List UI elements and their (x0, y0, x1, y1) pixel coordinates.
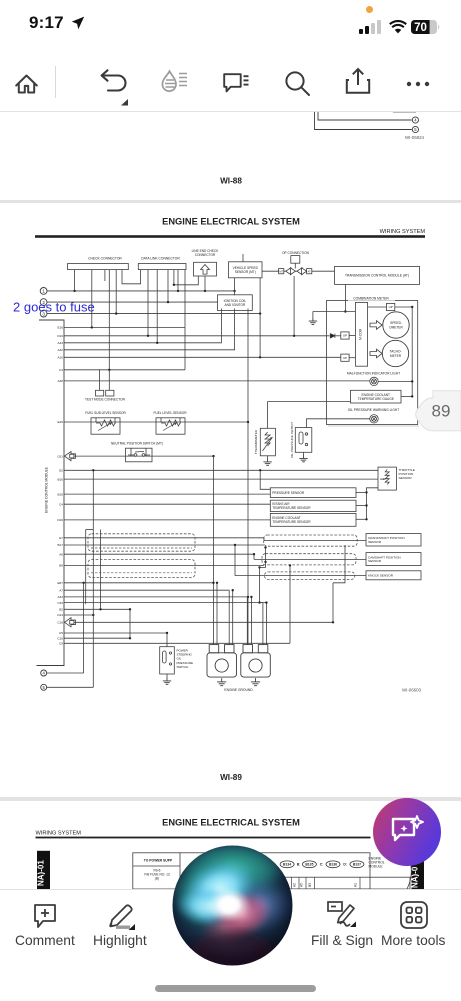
svg-text:NA)-0: NA)-0 (411, 866, 420, 888)
wire loop vert (85, 530, 87, 605)
svg-text:89: 89 (432, 402, 451, 421)
wire E87 row (64, 582, 214, 584)
svg-text:B3: B3 (308, 883, 312, 887)
svg-text:ENGINE COOLANTTEMPERATURE SENS: ENGINE COOLANTTEMPERATURE SENSOR (272, 516, 311, 524)
wire coolant right (356, 518, 367, 520)
orange dot (366, 6, 373, 13)
wire intake right (356, 505, 367, 507)
fuel sub level sensor (91, 418, 120, 434)
thermometer gnd stem (267, 456, 269, 459)
wire C61 row (74, 455, 213, 457)
svg-text:A7: A7 (59, 588, 63, 592)
op connection stub box (291, 256, 300, 264)
connector B137 (350, 861, 364, 868)
shield wire L1 dashed (91, 547, 192, 549)
wire E7 row (64, 537, 264, 539)
svg-text:UP: UP (343, 356, 347, 360)
svg-text:FUEL LEVEL SENSOR: FUEL LEVEL SENSOR (153, 411, 187, 415)
wire crank solid (264, 540, 366, 542)
node 3 (40, 310, 47, 317)
power steering oil pressure switch (160, 647, 175, 674)
svg-text:NA)-01: NA)-01 (37, 860, 46, 886)
junction row1 b (177, 290, 179, 292)
wire row 2 (47, 301, 217, 303)
junction shield a (264, 546, 266, 548)
svg-text:A28: A28 (57, 379, 63, 383)
svg-text:IGNITION COILAND IGNITOR: IGNITION COILAND IGNITOR (224, 299, 247, 307)
shield box L2 (88, 560, 195, 578)
svg-text:THROTTLEPOSITIONSENSOR: THROTTLEPOSITIONSENSOR (399, 468, 415, 480)
svg-text:B10: B10 (57, 492, 63, 496)
strip pin A2 (293, 877, 300, 889)
svg-text:B9: B9 (59, 564, 63, 568)
gnd tab wire 2 (228, 590, 230, 644)
title2 rule (36, 837, 371, 839)
wire D19 row (64, 335, 330, 337)
strip pin A5 (300, 877, 307, 889)
wire E16 row (64, 326, 185, 328)
wire data pin C4 (184, 327, 186, 369)
node 2 (40, 299, 47, 306)
engine ground terminal 2 (241, 645, 270, 678)
wire A10 row (64, 356, 341, 358)
fuel level sensor symbol (161, 420, 181, 431)
wire ops to warning lamp (307, 419, 370, 428)
wire shield drain1 (265, 548, 267, 562)
connector B134 (280, 861, 294, 868)
meter ground (309, 318, 317, 325)
data link corner wire (174, 270, 198, 285)
data link pin 2 (156, 270, 158, 343)
TCM pin drop (344, 284, 346, 311)
data link pin 5 (184, 270, 186, 328)
svg-text:TO POWER SUPP: TO POWER SUPP (144, 859, 173, 863)
pin strip (285, 877, 411, 889)
junction row1 d (233, 290, 235, 292)
throttle position sensor (378, 467, 396, 490)
vehicle speed sensor (MT) (229, 262, 263, 278)
svg-text:INTAKE AIRTEMPERATURE SENSOR: INTAKE AIRTEMPERATURE SENSOR (272, 502, 311, 510)
engine ground hatch 1 (217, 678, 226, 686)
comment icon (222, 72, 252, 98)
junction B17 knock (234, 544, 236, 546)
svg-text:TACHO-METER: TACHO-METER (390, 350, 402, 358)
meter right bus (411, 307, 413, 398)
svg-text:C33: C33 (57, 601, 63, 605)
svg-text:E87: E87 (57, 581, 63, 585)
svg-text:OIL PRESSURE WARNING LIGHT: OIL PRESSURE WARNING LIGHT (348, 408, 400, 412)
shield box knock (265, 572, 355, 580)
meter M-COM block (355, 302, 367, 366)
home icon (13, 70, 40, 97)
junction c9 riser (289, 564, 291, 566)
svg-text:B136: B136 (329, 863, 337, 867)
junction C61 gnd (212, 455, 214, 457)
svg-text:E7: E7 (59, 536, 63, 540)
cellular bars (359, 20, 385, 36)
line end check pin (204, 276, 206, 291)
junction bus a (365, 491, 367, 493)
junction ign E45 (247, 421, 249, 423)
junction D19 dl (147, 335, 149, 337)
svg-text:E45: E45 (57, 420, 63, 424)
fls1 pin right (114, 418, 116, 422)
svg-text:TRANSMISSION CONTROL MODULE (A: TRANSMISSION CONTROL MODULE (AT) (345, 274, 409, 278)
strip pin B2 (285, 877, 292, 889)
svg-text:D:: D: (343, 863, 347, 867)
junction E87 (82, 582, 84, 584)
ink presets icon (160, 68, 190, 98)
wire C5 row (64, 632, 167, 634)
fls1 pin left (95, 418, 97, 422)
check connector pin 4 (115, 270, 117, 314)
svg-text:70: 70 (414, 22, 427, 34)
svg-text:POWERSTEERINGOILPRESSURESWITCH: POWERSTEERINGOILPRESSURESWITCH (177, 649, 194, 669)
junction bus b (365, 504, 367, 506)
svg-text:DATA LINK CONNECTOR: DATA LINK CONNECTOR (141, 256, 180, 260)
svg-text:D19: D19 (57, 334, 63, 338)
fls2 pin left (160, 418, 162, 422)
wire C33 row (64, 602, 266, 604)
wire row 3 (47, 313, 260, 315)
svg-text:ENGINE ELECTRICAL SYSTEM: ENGINE ELECTRICAL SYSTEM (162, 217, 300, 227)
left tab NA(H)-01 (37, 851, 51, 889)
gnd tab wire 2b (232, 590, 234, 644)
svg-text:A33: A33 (57, 595, 63, 599)
wire node5 (47, 686, 94, 688)
connector C61 (65, 452, 76, 461)
svg-text:OP CONNECTION: OP CONNECTION (282, 251, 310, 255)
junction E2 b (259, 469, 261, 471)
ps switch symbol (163, 651, 172, 665)
home indicator (155, 985, 316, 992)
neutral position switch (126, 448, 153, 462)
junction tab4b (250, 596, 252, 598)
junction E2 a (92, 469, 94, 471)
data link pin 1 (147, 270, 149, 336)
page WI-88 partial trace (393, 112, 416, 114)
junction tab5b (265, 601, 267, 603)
wire pressure right (356, 491, 367, 493)
svg-text:WI-06603: WI-06603 (402, 688, 422, 693)
junction B2 (99, 608, 101, 610)
svg-text:ENGINE ELECTRICAL SYSTEM: ENGINE ELECTRICAL SYSTEM (162, 818, 300, 828)
check connector pin 3b (104, 270, 106, 281)
undo icon (98, 66, 138, 106)
svg-text:C16: C16 (57, 621, 63, 625)
wire node4 (47, 672, 84, 674)
shield box cam (262, 554, 356, 565)
wire E2 row (64, 469, 378, 471)
meter arrow speedometer (370, 321, 382, 330)
title rule (35, 235, 425, 238)
svg-text:AT: AT (308, 269, 312, 273)
svg-text:B:: B: (297, 863, 301, 867)
shield wire L2 dashed (91, 572, 192, 574)
svg-text:FB-6F/B FUSE NO. 13(B): FB-6F/B FUSE NO. 13(B) (144, 869, 170, 881)
op conn drop (293, 276, 295, 336)
svg-text:B137: B137 (353, 863, 361, 867)
shield box L1 (88, 534, 195, 551)
oil pressure warning light (370, 415, 378, 423)
connector C16 (65, 618, 76, 627)
check connector pin 1 (74, 270, 76, 291)
wire A32 row (64, 309, 235, 350)
engine ground hatch 2 (251, 678, 260, 686)
test mode connector sq1 (96, 390, 104, 396)
fill & sign icon (326, 900, 362, 932)
svg-text:WIRING SYSTEM: WIRING SYSTEM (36, 831, 82, 837)
ps gnd stem (166, 674, 168, 678)
power steering switch ground (163, 678, 171, 685)
connector B136 (326, 861, 340, 868)
comment+ icon (32, 902, 60, 930)
diode at meter (330, 334, 341, 338)
check connector u-loop (122, 270, 141, 284)
wire VSS to TCM (262, 270, 335, 272)
pressure sensor (270, 488, 356, 498)
svg-text:THERMOMETER: THERMOMETER (254, 429, 258, 454)
svg-text:OIL PRESSURE SWITCH: OIL PRESSURE SWITCH (290, 422, 294, 458)
wire D16 row (64, 519, 270, 521)
wire up top to bus (395, 306, 412, 308)
intake air temperature sensor (270, 500, 356, 511)
wire knock solid (235, 575, 366, 577)
nps drop right (145, 448, 147, 456)
table divider (179, 853, 181, 889)
meter UP box low (341, 354, 349, 361)
junction shield b (264, 561, 266, 563)
gnd tab wire 1 (213, 456, 215, 644)
junction bus c (365, 518, 367, 520)
junction dl corner (173, 284, 175, 286)
wire to terminal 4 (318, 112, 412, 120)
op connector pair 2 (297, 268, 312, 275)
wire mcom to up top (368, 306, 387, 308)
wire v100 (100, 530, 102, 610)
wire ect right (401, 395, 412, 397)
junction shield c (258, 566, 260, 568)
wire B2 row (64, 608, 130, 610)
gnd tab wire 1b (216, 583, 218, 645)
camshaft position sensor (366, 553, 421, 566)
fuel sub level sensor symbol (96, 420, 116, 431)
oil pressure switch ground (299, 455, 307, 462)
neutral switch symbol (128, 451, 150, 456)
node 5 (412, 126, 418, 132)
junction D14 (92, 614, 94, 616)
node 1 (40, 288, 47, 295)
junction C10 (129, 637, 131, 639)
node 4 bottom (41, 670, 47, 676)
wire C9 row (64, 642, 290, 644)
svg-text:C:: C: (320, 863, 324, 867)
svg-text:TEST MODE CONNECTOR: TEST MODE CONNECTOR (85, 398, 126, 402)
wire B17 row (64, 544, 264, 546)
data link pin 3 (167, 270, 169, 303)
combination meter (327, 301, 418, 425)
junction tcm pin (344, 310, 346, 312)
page separators (0, 200, 461, 203)
junction shield d (258, 601, 260, 603)
oil pressure switch symbol (299, 432, 308, 446)
junction row3 chk (115, 312, 117, 314)
meter label bg (348, 296, 395, 301)
ignition coil and ignitor (218, 295, 253, 311)
svg-text:B16: B16 (57, 477, 63, 481)
wire mil right (378, 380, 412, 382)
junction row1 c (204, 290, 206, 292)
wire A6 row (64, 553, 254, 555)
svg-text:C9: C9 (59, 642, 63, 646)
svg-text:SPEED-OMETER: SPEED-OMETER (389, 321, 403, 329)
speedometer (383, 312, 409, 338)
data link corner E16 (184, 326, 186, 328)
junction row3 a (259, 312, 261, 314)
meter UP box top (387, 303, 395, 310)
divider (55, 66, 56, 98)
page bubble 89 (416, 391, 461, 431)
engine ground terminal 1 (207, 645, 237, 678)
svg-text:A32: A32 (57, 348, 63, 352)
fls2 pin right (179, 418, 181, 422)
junction A33 dl (156, 342, 158, 344)
wire c16 riser (332, 583, 334, 623)
junction C4 tmc (108, 369, 110, 371)
wire D14 row (64, 614, 93, 616)
junction D19 op (293, 335, 295, 337)
vss pin 2 (259, 278, 261, 358)
junction row1 a (73, 290, 75, 292)
nps drop left (130, 448, 132, 456)
strip pin A1 (354, 877, 361, 889)
wire shield bus (259, 567, 261, 602)
thermometer body (260, 428, 275, 456)
svg-text:ENGINE CONTROL MODULE: ENGINE CONTROL MODULE (45, 466, 49, 513)
svg-text:ENGINE GROUND: ENGINE GROUND (224, 688, 253, 692)
wire v130 (129, 609, 131, 638)
tps potentiometer symbol (380, 470, 389, 485)
wire up mid to mcom (349, 335, 355, 337)
junction ign A33b (247, 596, 249, 598)
wire C16 row (74, 621, 333, 623)
wire meter int gnd (313, 311, 356, 313)
check connector pin 2 (91, 270, 93, 328)
connector B135 (302, 861, 316, 868)
ellipsis icon (403, 80, 433, 88)
svg-text:B2: B2 (59, 608, 63, 612)
junction row2 a (167, 301, 169, 303)
vss top stub (242, 254, 244, 262)
wire B9 row (64, 564, 264, 566)
shield box crank (264, 535, 358, 546)
node 5 bottom (41, 684, 47, 690)
svg-text:MALFUNCTION INDICATOR LIGHT: MALFUNCTION INDICATOR LIGHT (347, 372, 400, 376)
meter arrow tachometer (370, 349, 382, 358)
wire shield drain2 (260, 562, 266, 568)
junction A6 cam (253, 553, 255, 555)
meter shadow (328, 425, 419, 427)
svg-text:C5: C5 (59, 631, 63, 635)
wire to terminal 5 (315, 112, 412, 130)
meter UP box mid (341, 332, 349, 339)
wire node5 riser (92, 470, 94, 687)
oil pressure switch body (295, 428, 312, 453)
wire E45 row (64, 421, 248, 423)
svg-text:CRANKSHAFT POSITIONSENSOR: CRANKSHAFT POSITIONSENSOR (368, 536, 405, 544)
vss pin 1 (234, 278, 236, 295)
wire pressure feed (260, 470, 270, 489)
svg-text:D16: D16 (57, 518, 63, 522)
wire row2 to ign (217, 301, 219, 303)
op connection stub wire (294, 263, 296, 268)
ps switch top pin (166, 633, 168, 647)
junction v130 (129, 608, 131, 610)
check connector pin 3 (108, 270, 110, 391)
svg-text:D14: D14 (57, 613, 63, 617)
wire up low to mcom (349, 357, 355, 359)
highlight icon (104, 900, 138, 932)
power supply table outer (133, 853, 370, 889)
wire cam jog (253, 554, 255, 559)
gnd tab wire 5b (265, 603, 267, 645)
wire C10 row (64, 637, 130, 639)
junction ect bus (411, 395, 413, 397)
engine control module outline (37, 320, 65, 666)
svg-text:UP: UP (389, 305, 393, 309)
svg-text:E16: E16 (57, 326, 63, 330)
wire loop stub (86, 529, 94, 531)
right tab NA(H)-01 (411, 858, 424, 889)
thermometer symbol (263, 432, 273, 451)
more tools icon (399, 900, 429, 930)
svg-text:WIRING SYSTEM: WIRING SYSTEM (380, 229, 426, 235)
svg-text:A6: A6 (59, 552, 63, 556)
data link connector (138, 264, 186, 270)
junction A10 (259, 356, 261, 358)
junction mil bus (411, 380, 413, 382)
wire c9 riser (289, 565, 291, 643)
thermometer ground (263, 459, 271, 466)
wire crank jog (263, 538, 265, 541)
svg-text:A5: A5 (300, 883, 304, 887)
svg-text:NEUTRAL POSITION SWITCH (MT): NEUTRAL POSITION SWITCH (MT) (111, 442, 163, 446)
op connector pair 1 (279, 268, 296, 275)
svg-text:WI-05824: WI-05824 (405, 135, 425, 140)
battery 70 (411, 20, 441, 34)
svg-text:A2: A2 (293, 883, 297, 887)
svg-text:LINE END CHECKCONNECTOR: LINE END CHECKCONNECTOR (192, 249, 220, 257)
node 4 (412, 117, 418, 123)
wire B10 row (64, 493, 270, 495)
svg-text:PRESSURE SENSOR: PRESSURE SENSOR (272, 491, 305, 495)
crankshaft position sensor (366, 534, 421, 546)
check connector (68, 264, 129, 270)
wire A33b row (64, 596, 248, 598)
data link pin 4 (177, 270, 179, 291)
svg-text:B135: B135 (305, 863, 313, 867)
gnd tab wire 4 (246, 597, 248, 645)
wifi (389, 20, 407, 34)
test mode connector sq2 (106, 390, 114, 396)
wire C4b row (64, 503, 270, 505)
table header line (133, 865, 180, 867)
svg-text:A1: A1 (354, 883, 358, 887)
junction tab1b (216, 582, 218, 584)
line end check arrow symbol (201, 265, 210, 275)
gnd tab wire 4b (250, 597, 252, 645)
svg-text:1: 1 (42, 289, 45, 294)
